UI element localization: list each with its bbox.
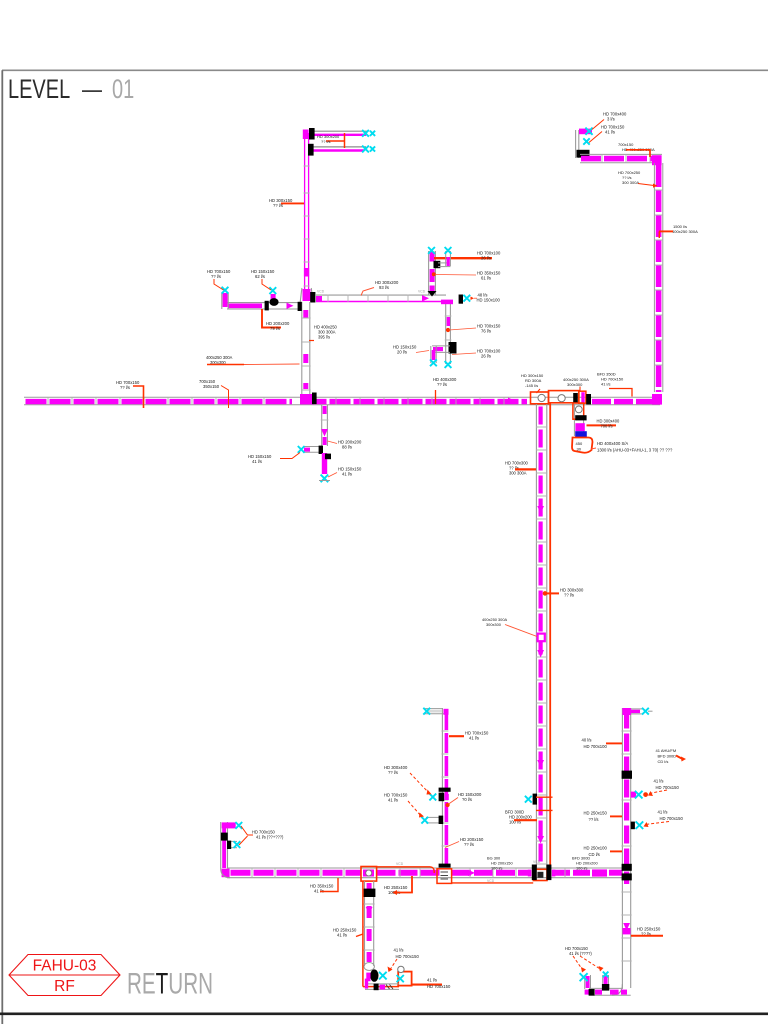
diffuser bits K2 xyxy=(603,972,609,978)
svg-text:LEVEL: LEVEL xyxy=(8,74,70,105)
duct G joint ticks xyxy=(252,868,565,878)
diffuser arrows L bottom xyxy=(321,475,329,483)
svg-text:395 l/s: 395 l/s xyxy=(318,335,330,340)
duct H magenta dashes xyxy=(367,883,372,962)
diffuser arrows duct B1 end xyxy=(362,130,369,137)
red arrow AHU xyxy=(676,756,684,760)
svg-text:VCD: VCD xyxy=(396,862,404,866)
diffuser arrows riser 1 top xyxy=(428,247,435,254)
svg-text:450: 450 xyxy=(576,441,583,446)
svg-text:100 l/s: 100 l/s xyxy=(576,865,588,870)
svg-text:26 l/s: 26 l/s xyxy=(481,354,491,359)
svg-text:BFD 300D: BFD 300D xyxy=(658,754,677,759)
left riser G magenta xyxy=(222,826,226,868)
svg-text:41 l/s: 41 l/s xyxy=(658,810,668,815)
leader red tick A x435 xyxy=(435,390,437,404)
svg-text:40 l/s: 40 l/s xyxy=(582,738,592,743)
diffuser arrows mid stub xyxy=(269,287,276,294)
svg-text:HD 250x150: HD 250x150 xyxy=(584,811,608,816)
riser 1 outline xyxy=(428,251,430,295)
svg-text:VCD: VCD xyxy=(418,290,426,294)
damper bar left branch xyxy=(265,301,269,311)
duct B magenta solid segment xyxy=(304,268,309,277)
svg-text:?0 l/s: ?0 l/s xyxy=(462,797,472,802)
red pipe H vertical xyxy=(362,881,364,987)
leader red arrow tr3 xyxy=(638,184,654,186)
diffuser arrows left stub xyxy=(222,287,229,294)
svg-text:CD l/s: CD l/s xyxy=(658,759,669,764)
leader red mid40 xyxy=(606,742,622,744)
flow arrow F lower xyxy=(623,923,630,931)
diffuser arrows riser 3 xyxy=(430,359,437,366)
damper bar end junction xyxy=(459,295,463,304)
junction E-G red box xyxy=(533,869,547,880)
svg-text:-145 l/s: -145 l/s xyxy=(525,383,538,388)
duct G magenta solid block xyxy=(592,869,607,876)
damper blob left branch xyxy=(269,298,278,306)
damper riser 1 xyxy=(434,261,441,268)
duct E joint ticks xyxy=(536,427,547,864)
svg-text:?? l/s: ?? l/s xyxy=(464,842,474,847)
duct L lower magenta xyxy=(322,453,327,474)
red pipe line E xyxy=(549,403,551,868)
stub K2 outline xyxy=(602,975,604,989)
duct G magenta dashes seg5 xyxy=(609,870,622,876)
damper bar I bottom xyxy=(439,864,451,868)
svg-text:30: 30 xyxy=(577,447,582,452)
flow arrow E1 xyxy=(537,506,544,514)
duct B junction blob at duct A xyxy=(300,394,314,404)
svg-text:1300 l/s (AHU-03+FAHU-1, 3 70): 1300 l/s (AHU-03+FAHU-1, 3 70) ?? ??? xyxy=(597,448,673,453)
leader red H xyxy=(356,934,363,937)
damper bar I upper xyxy=(439,788,451,792)
branch I1 cyan xyxy=(429,794,436,801)
duct L magenta seg2 xyxy=(323,437,327,445)
branch C end junction magenta xyxy=(441,300,453,305)
duct D magenta segment xyxy=(447,317,450,326)
svg-text:62 l/s: 62 l/s xyxy=(255,274,265,279)
svg-text:?? l/s: ?? l/s xyxy=(321,139,331,144)
leader red tr1 xyxy=(592,120,604,130)
leader red to branch C xyxy=(361,288,374,296)
svg-text:41 l/s: 41 l/s xyxy=(394,948,404,953)
leader red 20ls xyxy=(416,351,429,353)
leader red thick J xyxy=(412,984,442,986)
magenta block F at leader xyxy=(623,928,631,934)
damper stub xyxy=(575,415,586,420)
duct B twin magenta lines xyxy=(304,133,306,290)
assembly J hatch xyxy=(386,985,390,990)
duct B lower joint ticks xyxy=(301,318,311,390)
leader red tick B xyxy=(309,340,314,342)
svg-text:HD 700x150: HD 700x150 xyxy=(396,954,420,959)
svg-text:?? l/s: ?? l/s xyxy=(388,770,398,775)
branch C magenta start xyxy=(316,296,322,302)
damper bar stub2 xyxy=(227,841,231,849)
svg-text:79 l/s: 79 l/s xyxy=(270,326,280,331)
leader red to duct B xyxy=(281,202,304,204)
assembly J duct cap xyxy=(364,963,374,971)
branch F1 red dot xyxy=(644,793,648,797)
leader red L3 xyxy=(328,473,337,478)
diffuser arrows end junction xyxy=(463,295,470,302)
duct G magenta dashes seg1 xyxy=(231,870,362,876)
duct G magenta dashes seg3 xyxy=(452,870,531,876)
left branch magenta run xyxy=(228,303,262,308)
diffuser arrows duct D bottom xyxy=(445,361,452,368)
duct L joint tick xyxy=(321,419,329,421)
diffuser arrows duct B2 end xyxy=(362,146,369,153)
damper bar E-G right xyxy=(546,865,551,881)
assembly J cyan 1 xyxy=(379,972,387,980)
magenta bar in box 3 xyxy=(581,392,584,403)
svg-text:41 l/s: 41 l/s xyxy=(427,978,437,983)
svg-text:HD 250x100: HD 250x100 xyxy=(584,846,608,851)
svg-text:?? l/s: ?? l/s xyxy=(564,593,574,598)
leader red dashed I1 xyxy=(410,773,429,793)
duct B lower gray outline xyxy=(301,302,303,397)
duct A magenta dashes left run xyxy=(26,399,293,404)
svg-text:HD 700x150: HD 700x150 xyxy=(427,984,451,989)
assembly J cyan 2 xyxy=(397,975,404,982)
svg-text:41 l/s: 41 l/s xyxy=(252,459,262,464)
leader red box tr xyxy=(626,150,650,157)
red box junction 2 wide xyxy=(549,391,579,403)
duct G magenta dashes seg2 xyxy=(377,870,442,876)
diffuser arrows top right xyxy=(585,128,592,135)
diffuser arrows left riser top xyxy=(235,822,242,829)
red pipe H bottom run xyxy=(363,986,399,988)
junction F-G dampers xyxy=(622,864,632,871)
stub outline gray xyxy=(573,404,575,436)
svg-text:HD 700x100: HD 700x100 xyxy=(584,744,608,749)
duct H outline xyxy=(364,881,366,966)
svg-text:VCD: VCD xyxy=(533,860,541,864)
leader red elbow A left xyxy=(133,386,144,408)
damper bar I2 xyxy=(439,816,444,824)
damper duct B2 xyxy=(308,144,314,156)
leader red thick E1 xyxy=(515,468,536,470)
svg-text:?? l/s: ?? l/s xyxy=(437,382,447,387)
leader red thick 700ls xyxy=(587,424,617,426)
leader red elbow down xyxy=(262,309,281,328)
svg-text:350x150: 350x150 xyxy=(203,384,220,389)
svg-text:41 l/s: 41 l/s xyxy=(601,382,611,387)
duct F gray outline xyxy=(621,708,623,988)
junction E-G dark mark xyxy=(537,872,543,878)
junction H red box xyxy=(361,867,377,882)
svg-text:CD l/s: CD l/s xyxy=(589,852,600,857)
leader red dashed I2 xyxy=(408,801,421,816)
svg-text:20 l/s: 20 l/s xyxy=(397,350,407,355)
damper bar branch E xyxy=(533,794,537,805)
svg-text:400x250 300A: 400x250 300A xyxy=(672,229,698,234)
circle symbol stub xyxy=(575,406,582,413)
duct R vert joint ticks xyxy=(654,190,662,365)
duct B lower magenta dashes xyxy=(303,310,308,395)
duct E gray outline xyxy=(535,404,537,868)
duct I top elbow xyxy=(424,708,443,710)
flow arrow E3 xyxy=(537,760,544,768)
diffuser arrow F top xyxy=(642,708,649,715)
svg-text:26 l/s: 26 l/s xyxy=(481,256,491,261)
damper on duct A right of junction xyxy=(312,393,317,405)
duct K magenta bits xyxy=(585,990,590,995)
duct K outline xyxy=(589,987,623,989)
leader red thick E2 xyxy=(544,592,560,594)
plenum red blob xyxy=(572,438,593,453)
red box junction 1 xyxy=(531,392,549,404)
circle symbol jct 2 xyxy=(558,395,565,402)
assembly J magenta bits xyxy=(366,973,370,982)
svg-text:41 l/s (??+???): 41 l/s (??+???) xyxy=(256,835,284,840)
damper blob K2 xyxy=(602,984,609,991)
duct A joint ticks xyxy=(48,397,504,405)
FAHU-03 hexagon tag xyxy=(9,955,120,996)
leader red L2 xyxy=(328,441,338,444)
leader red dashed J xyxy=(390,959,398,971)
damper blob left riser xyxy=(221,833,228,841)
leader red underline to B xyxy=(207,364,244,366)
leader red mid100 xyxy=(610,850,622,852)
branch L stub xyxy=(303,446,321,448)
branch F1 cyan xyxy=(635,791,643,799)
duct R horizontal run xyxy=(580,153,662,155)
svg-text:3 l/s: 3 l/s xyxy=(607,117,615,122)
leader red mid stub xyxy=(262,279,271,290)
flow arrow duct H xyxy=(366,907,373,915)
duct H joint ticks xyxy=(364,904,375,950)
leader red cluster2 xyxy=(579,387,581,393)
leader red dashed K2 xyxy=(580,956,601,970)
page bottom border line xyxy=(0,1012,768,1015)
duct G gray outline xyxy=(227,867,623,869)
blue box stub xyxy=(575,431,587,437)
branch F2 cyan xyxy=(636,821,644,829)
magenta box stub xyxy=(575,423,584,431)
leader red dashed F2 xyxy=(645,822,669,825)
leader red diag E box xyxy=(505,625,537,637)
riser 3 outline xyxy=(430,346,432,363)
duct E magenta dashes xyxy=(538,407,542,867)
duct A outline gray lines xyxy=(24,396,660,398)
branch C flow arrow xyxy=(422,295,429,301)
red dot I mid xyxy=(446,803,449,806)
duct I joint ticks xyxy=(441,731,448,846)
svg-text:41 l/s: 41 l/s xyxy=(342,472,352,477)
leader red left stub xyxy=(214,279,224,290)
leader red thick F low xyxy=(631,935,663,937)
leader red duct B1/B2 xyxy=(344,133,346,148)
red ticks branch E xyxy=(536,796,553,798)
svg-text:41 l/s: 41 l/s xyxy=(388,798,398,803)
title LEVEL - 01 xyxy=(8,74,134,105)
svg-text:41 l/s: 41 l/s xyxy=(605,130,615,135)
svg-text:?? l/s: ?? l/s xyxy=(211,274,221,279)
magenta box symbol E xyxy=(538,634,545,642)
damper duct D bottom xyxy=(449,343,456,354)
duct D outline xyxy=(445,304,447,364)
leader red diag I mid xyxy=(449,798,458,805)
leader red tr2 xyxy=(589,132,602,143)
leader red thick 26ls xyxy=(434,257,492,259)
svg-text:HD 700x150: HD 700x150 xyxy=(660,816,684,821)
stub K1 outline xyxy=(584,975,586,989)
magenta bits E-G xyxy=(528,870,532,877)
duct B2 second branch run gray+magenta xyxy=(310,146,366,148)
svg-text:VCD: VCD xyxy=(317,290,325,294)
diffuser arrows L stub xyxy=(298,446,305,453)
duct L flow arrow xyxy=(321,429,328,437)
duct L magenta seg xyxy=(323,406,327,414)
svg-text:41 l/s: 41 l/s xyxy=(654,779,664,784)
diffuser arrows 2 top right xyxy=(583,138,589,144)
duct R horiz joint ticks xyxy=(602,154,650,162)
duct R bottom elbow xyxy=(652,394,662,405)
damper duct B1 xyxy=(309,128,315,140)
damper F xyxy=(622,771,632,779)
leader red thick I 41 xyxy=(449,735,464,737)
circle symbol jct 1 xyxy=(538,394,545,401)
svg-text:FAHU-03: FAHU-03 xyxy=(33,958,97,975)
diffuser arrows riser 2 top xyxy=(445,247,452,254)
leader red mid250 xyxy=(610,815,622,817)
flow arrow duct A near junction xyxy=(508,398,515,404)
left branch outline xyxy=(227,302,302,304)
leader red 26ls lower xyxy=(452,353,476,355)
duct R vertical run xyxy=(653,163,655,392)
top right riser gray xyxy=(575,130,577,158)
flow arrow E2 xyxy=(537,650,544,658)
damper bar L xyxy=(319,446,323,454)
red line along G top xyxy=(377,866,430,868)
svg-text:HD 400x400 S/A: HD 400x400 S/A xyxy=(597,441,628,446)
VCD red box on G xyxy=(437,869,452,884)
duct L outline xyxy=(321,405,323,446)
diffuser arrows K1 xyxy=(580,973,588,981)
duct F magenta dashes xyxy=(624,711,629,885)
damper blob I1 xyxy=(439,793,445,802)
svg-text:?? l/s: ?? l/s xyxy=(589,817,599,822)
branch F1 magenta stub xyxy=(631,792,636,798)
duct F top elbow xyxy=(622,708,631,715)
page top border line xyxy=(2,69,768,71)
duct F bottom elbow xyxy=(612,984,622,995)
svg-text:93 l/s: 93 l/s xyxy=(379,285,389,290)
left branch end stub xyxy=(221,293,223,309)
damper bar right of box 3 xyxy=(586,394,591,404)
branch I2 cyan xyxy=(421,817,428,824)
svg-text:41 AHU/FM: 41 AHU/FM xyxy=(656,748,677,753)
damper blob top right xyxy=(577,150,590,158)
damper duct H xyxy=(364,889,376,897)
svg-text:?? l/s: ?? l/s xyxy=(120,385,130,390)
svg-text:76 l/s: 76 l/s xyxy=(481,329,491,334)
red box junction 3 xyxy=(579,391,586,403)
damper at duct B bottom junction xyxy=(310,292,315,303)
duct B transition to wide xyxy=(300,288,302,302)
svg-text:VCD: VCD xyxy=(487,879,495,883)
svg-text:88 l/s: 88 l/s xyxy=(342,445,352,450)
svg-text:HD 700x150: HD 700x150 xyxy=(656,785,680,790)
svg-text:61 l/s: 61 l/s xyxy=(481,276,491,281)
red dot leader 61ls xyxy=(432,273,435,276)
branch C outline xyxy=(316,294,446,296)
assembly J circle xyxy=(398,966,404,972)
duct R elbow xyxy=(652,155,662,165)
damper blob K1 xyxy=(589,989,595,996)
red line under G xyxy=(452,882,534,884)
svg-text:41 l/s (????): 41 l/s (????) xyxy=(569,951,592,956)
duct A magenta dashes centre run xyxy=(314,399,528,404)
damper bar E-G left xyxy=(532,865,537,881)
diffuser arrows duct I top xyxy=(423,708,430,715)
black triangle damper xyxy=(428,291,437,297)
svg-text:300 300A: 300 300A xyxy=(509,471,527,476)
damper bar in box 2 xyxy=(573,393,578,403)
duct I magenta edge xyxy=(445,710,449,866)
branch F2 damper xyxy=(631,822,635,830)
assembly J red box xyxy=(398,972,411,986)
elbow left duct xyxy=(432,345,450,347)
duct G magenta dashes seg4 xyxy=(553,870,590,876)
mid stub magenta xyxy=(271,294,276,303)
leader red L1 xyxy=(280,453,300,459)
red arrow 48ls xyxy=(471,297,475,301)
leader red 1500 xyxy=(659,230,673,232)
stub red outline xyxy=(573,403,584,419)
junction H innards xyxy=(363,870,374,877)
leader red G2 xyxy=(396,876,412,893)
duct B joint ticks xyxy=(304,166,310,286)
leader red thick E3 xyxy=(514,819,537,821)
left branch flow arrow xyxy=(287,303,294,309)
svg-text:41 l/s: 41 l/s xyxy=(337,933,347,938)
duct A magenta dashes right run xyxy=(592,399,655,404)
riser 1 magenta segments xyxy=(430,252,435,262)
assembly J black blob xyxy=(370,969,378,981)
svg-text:300x300: 300x300 xyxy=(486,622,502,627)
duct G left elbow xyxy=(222,869,230,878)
duct B top elbow xyxy=(303,130,309,140)
diffuser arrows stub2 xyxy=(234,841,241,848)
top right magenta stub xyxy=(579,129,592,135)
branch I2 stub xyxy=(426,816,442,818)
svg-text:300 300A: 300 300A xyxy=(622,180,639,185)
red dot leader 76ls xyxy=(446,328,449,331)
svg-text:01: 01 xyxy=(112,74,134,105)
VCD box marks xyxy=(441,871,449,873)
left riser stub2 xyxy=(228,840,238,842)
leader red left riser xyxy=(241,826,253,835)
leader red dashed K1 xyxy=(573,956,583,971)
elbow duct small xyxy=(438,262,448,264)
branch C joint ticks xyxy=(328,295,408,303)
leader red cluster1 xyxy=(537,389,541,393)
svg-text:RETURN: RETURN xyxy=(127,968,213,1000)
leader red G1 xyxy=(320,878,338,892)
leader red plenum xyxy=(591,448,596,449)
svg-text:300x300: 300x300 xyxy=(567,382,583,387)
svg-text:HD 150x100: HD 150x100 xyxy=(477,298,501,303)
duct G flow arrow xyxy=(468,870,475,876)
damper blob L xyxy=(325,454,331,460)
svg-text:100 l/s: 100 l/s xyxy=(491,865,503,870)
svg-text:—: — xyxy=(82,74,102,105)
damper bar near duct B xyxy=(298,302,302,311)
duct I gray edge xyxy=(441,708,443,866)
leader red A mid xyxy=(221,386,229,409)
